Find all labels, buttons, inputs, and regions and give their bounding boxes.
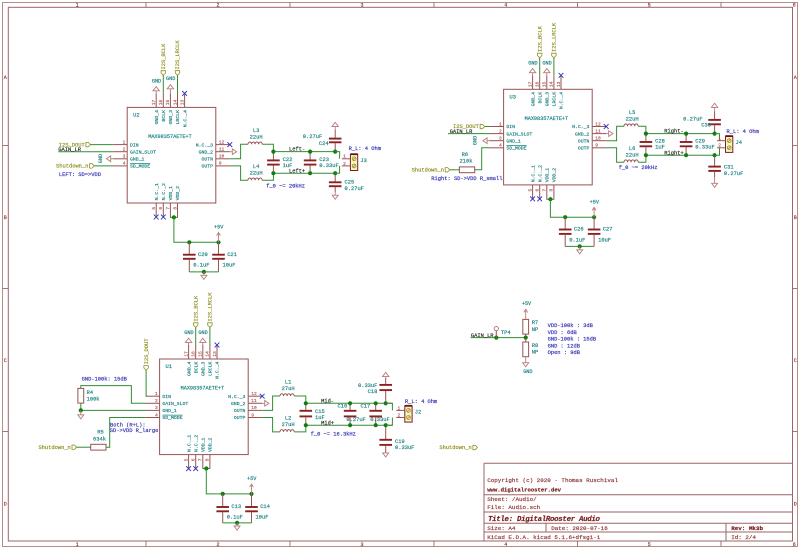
junction VDD pins: [172, 215, 176, 219]
svg-text:5: 5: [151, 207, 157, 210]
hierarchical label I2S_BCLK (mid): [194, 323, 198, 328]
svg-text:0.27uF: 0.27uF: [724, 171, 743, 177]
svg-text:10: 10: [251, 405, 257, 411]
svg-text:GND: GND: [528, 60, 537, 66]
svg-text:SD_MODE: SD_MODE: [506, 146, 526, 152]
svg-text:8: 8: [205, 458, 211, 461]
no-connect U3 pin 13: [559, 73, 564, 78]
svg-text:3: 3: [360, 542, 363, 548]
svg-text:Left-: Left-: [289, 147, 305, 153]
svg-text:N.C._3: N.C._3: [572, 124, 589, 130]
svg-text:6: 6: [535, 189, 541, 192]
svg-text:1: 1: [343, 154, 346, 160]
capacitor C23: [304, 152, 317, 174]
svg-text:R4: R4: [87, 390, 93, 396]
svg-text:1: 1: [398, 405, 401, 411]
wire GAIN_LR to U3 GAIN_SLOT: [448, 133, 490, 135]
wire L2 to Mid+ rail: [294, 425, 306, 432]
svg-text:3: 3: [499, 136, 502, 142]
svg-text:f_0 ~= 16.3kHz: f_0 ~= 16.3kHz: [311, 431, 356, 437]
svg-text:C18: C18: [368, 389, 378, 395]
svg-text:22uH: 22uH: [626, 116, 639, 122]
svg-text:N.C._4: N.C._4: [182, 110, 188, 127]
wire GAIN_LR to U2 GAIN_SLOT: [58, 151, 113, 153]
svg-text:Right-: Right-: [664, 129, 683, 135]
power +5V (U3): [592, 207, 596, 217]
svg-text:6: 6: [793, 3, 796, 9]
wire I2S_BCLK to U3 BCLK: [539, 58, 541, 76]
svg-text:C27: C27: [603, 227, 613, 233]
svg-text:VDD-100k : 3dB: VDD-100k : 3dB: [548, 323, 594, 329]
resistor R8: [523, 342, 529, 357]
svg-text:N.C._3: N.C._3: [196, 142, 213, 148]
svg-text:0.1uF: 0.1uF: [569, 237, 585, 243]
svg-text:15: 15: [198, 351, 204, 357]
op-amp U3 MAX98357AETE+T I2S class-D amplifier: [490, 75, 607, 199]
svg-text:OUTP: OUTP: [234, 415, 246, 421]
svg-text:15: 15: [165, 99, 171, 105]
svg-text:R7: R7: [532, 320, 538, 326]
svg-text:Right+: Right+: [664, 150, 683, 156]
svg-text:DIN: DIN: [162, 394, 171, 400]
svg-text:R8: R8: [532, 343, 538, 349]
svg-text:C24: C24: [319, 141, 329, 147]
junction Right+ at C29: [684, 153, 688, 157]
svg-text:6: 6: [158, 207, 164, 210]
svg-text:C22: C22: [283, 157, 293, 163]
hierarchical label I2S_LRCLK: [175, 71, 179, 76]
svg-text:GND: GND: [472, 136, 478, 145]
svg-text:GND_4: GND_4: [154, 110, 160, 125]
junction Mid- at C18/J2: [384, 401, 388, 405]
wire I2S_LRCLK to U3 LRCLK: [553, 58, 555, 76]
inductor L2: [280, 430, 294, 432]
wire U1 OUTN to L1: [262, 396, 280, 410]
svg-text:13: 13: [212, 351, 218, 357]
wire Left- to J3 pin 1: [335, 152, 339, 159]
junction Left+ at C22: [271, 171, 275, 175]
svg-text:Shutdown_n: Shutdown_n: [56, 164, 88, 170]
svg-text:14: 14: [205, 351, 211, 357]
no-connect U1 pin 12: [260, 394, 265, 399]
svg-text:7: 7: [165, 207, 171, 210]
ground at U2 GND_4: [155, 91, 157, 94]
svg-text:N.C._4: N.C._4: [559, 92, 565, 109]
wire U1 VDD to +5V rail: [206, 469, 251, 494]
svg-text:210k: 210k: [460, 159, 473, 165]
ground at U3 GND_4: [532, 73, 534, 76]
svg-text:C: C: [4, 358, 7, 364]
svg-text:12: 12: [219, 139, 225, 145]
junction Mid+ at C15: [304, 423, 308, 427]
svg-text:Shutdown_n: Shutdown_n: [38, 445, 70, 451]
wire I2S_LRCLK to U1 LRCLK: [209, 327, 211, 345]
svg-text:10uF: 10uF: [598, 237, 611, 243]
svg-text:VDD_2: VDD_2: [208, 437, 214, 452]
svg-text:MAX98357AETE+T: MAX98357AETE+T: [525, 116, 569, 122]
svg-text:1uF: 1uF: [283, 163, 293, 169]
svg-text:GAIN_LR: GAIN_LR: [471, 333, 494, 339]
svg-text:GND : 12dB: GND : 12dB: [548, 343, 581, 349]
svg-text:10: 10: [219, 154, 225, 160]
svg-text:6: 6: [793, 542, 796, 548]
title block: [484, 463, 793, 541]
svg-text:R6: R6: [462, 152, 468, 158]
svg-text:2: 2: [398, 412, 401, 418]
svg-text:13: 13: [179, 99, 185, 105]
svg-text:SD->VDD R_large: SD->VDD R_large: [110, 428, 159, 434]
inductor L1: [280, 394, 294, 396]
hierarchical label I2S_LRCLK (right): [552, 53, 556, 58]
svg-text:GND: GND: [152, 78, 161, 84]
svg-text:GND_3: GND_3: [168, 110, 174, 125]
svg-text:GND_2: GND_2: [575, 131, 590, 137]
no-connect U3 pin 5: [530, 197, 535, 202]
svg-text:GND_2: GND_2: [199, 149, 214, 155]
ground below C20/C21: [201, 275, 207, 279]
svg-text:VDD_1: VDD_1: [168, 186, 174, 201]
svg-text:NP: NP: [532, 327, 538, 333]
svg-text:2: 2: [155, 398, 158, 404]
svg-text:Right: SD->VDD R_small: Right: SD->VDD R_small: [431, 176, 502, 182]
svg-text:1: 1: [76, 3, 79, 9]
svg-text:5: 5: [183, 458, 189, 461]
svg-text:I2S_BCLK: I2S_BCLK: [193, 295, 199, 322]
ground below C31: [712, 183, 718, 187]
no-connect U1 pin 6: [193, 466, 198, 471]
svg-text:Date: 2020-07-16: Date: 2020-07-16: [551, 525, 608, 532]
svg-text:0.27uF: 0.27uF: [346, 417, 365, 423]
wire L5 to Right- rail: [638, 126, 646, 133]
wire I2S_DOUT to U3 DIN: [485, 126, 490, 128]
ground at U3 GND_2: [606, 133, 609, 135]
svg-text:17: 17: [151, 99, 157, 105]
connector J3: [350, 154, 357, 170]
svg-text:0.33uF: 0.33uF: [319, 163, 338, 169]
svg-text:D: D: [794, 501, 797, 507]
svg-text:GND: GND: [523, 369, 532, 375]
global label I2S_DOUT (right): [480, 124, 485, 128]
junction TP4 tap: [494, 336, 498, 340]
svg-text:3: 3: [360, 3, 363, 9]
svg-text:OUTP: OUTP: [201, 164, 213, 170]
svg-text:Title: DigitalRooster Audio: Title: DigitalRooster Audio: [488, 516, 601, 524]
svg-text:LRCLK: LRCLK: [175, 110, 181, 125]
capacitor C19: [379, 425, 392, 453]
svg-text:2: 2: [216, 542, 219, 548]
capacitor C28: [640, 134, 653, 156]
junction Left- at C24/J3: [333, 150, 337, 154]
svg-text:DIN: DIN: [130, 142, 139, 148]
junction +5V rail at C20: [187, 240, 191, 244]
wire U1 OUTP to L2: [262, 418, 280, 432]
inductor L5: [624, 124, 638, 126]
svg-text:GND: GND: [98, 154, 104, 163]
wire Right- to J4 pin 1: [715, 134, 720, 141]
svg-text:LEFT: SD=>VDD: LEFT: SD=>VDD: [59, 172, 101, 178]
wire U2 OUTN to L3: [230, 144, 248, 159]
svg-text:3: 3: [123, 154, 126, 160]
svg-text:GND: GND: [198, 330, 207, 336]
svg-text:U1: U1: [166, 364, 172, 370]
svg-text:Mid-: Mid-: [321, 398, 334, 404]
wire I2S_LRCLK to U2 LRCLK: [177, 75, 179, 93]
svg-text:N.C._1: N.C._1: [154, 183, 160, 200]
capacitor C13: [216, 494, 229, 523]
svg-text:4: 4: [504, 3, 507, 9]
wire R4 bottom to U1 GND_1: [81, 403, 146, 410]
svg-text:OUTN: OUTN: [578, 138, 590, 144]
svg-text:I2S_DOUT: I2S_DOUT: [144, 338, 150, 365]
resistor R7: [523, 319, 529, 334]
capacitor C26: [559, 217, 572, 246]
hierarchical label I2S_BCLK: [161, 71, 165, 76]
svg-text:13: 13: [556, 81, 562, 87]
svg-text:4: 4: [504, 542, 507, 548]
capacitor C15: [300, 403, 313, 425]
wire Right+ to J4 pin 2: [715, 148, 720, 155]
junction Left- at C23: [308, 150, 312, 154]
hierarchical label I2S_BCLK (right): [538, 53, 542, 58]
svg-text:L4: L4: [253, 164, 259, 170]
ground at U2 GND_2: [230, 151, 233, 153]
junction U3 bypass gnd: [578, 244, 582, 248]
no-connect U2 pin 6: [161, 215, 166, 220]
svg-text:GND_1: GND_1: [162, 408, 177, 414]
svg-text:U2: U2: [133, 112, 139, 118]
no-connect U2 pin 12: [227, 142, 232, 147]
svg-text:2: 2: [216, 3, 219, 9]
svg-text:Shutdown_n: Shutdown_n: [412, 168, 444, 174]
connector J4: [726, 136, 733, 152]
wire Mid- to J2 pin 1: [386, 403, 393, 410]
svg-text:C: C: [794, 358, 797, 364]
svg-text:Shutdown_n: Shutdown_n: [439, 445, 471, 451]
junction U3 VDD pins: [548, 197, 552, 201]
wire L6 to Right+ rail: [638, 155, 646, 162]
junction Mid- at C15: [304, 401, 308, 405]
inductor L4: [248, 178, 262, 180]
svg-text:22uH: 22uH: [250, 171, 263, 177]
svg-text:4: 4: [499, 143, 502, 149]
junction Left+ at C25/J3: [333, 171, 337, 175]
svg-text:0.1uF: 0.1uF: [227, 515, 243, 521]
capacitor C14: [245, 494, 258, 523]
svg-text:12: 12: [251, 391, 257, 397]
svg-text:5: 5: [648, 542, 651, 548]
wire U3 OUTN to L5: [606, 126, 624, 141]
svg-text:C20: C20: [198, 252, 208, 258]
junction Mid+ at C16: [348, 423, 352, 427]
svg-text:C25: C25: [345, 180, 355, 186]
wire U1 VDD pins tie: [203, 468, 210, 470]
svg-text:9: 9: [595, 143, 598, 149]
svg-text:I2S_BCLK: I2S_BCLK: [538, 25, 544, 52]
svg-text:C31: C31: [724, 165, 734, 171]
wire R6 to U3 SD_MODE: [475, 148, 490, 170]
svg-text:GND_1: GND_1: [130, 157, 145, 163]
svg-text:17: 17: [183, 351, 189, 357]
svg-text:R_L: 4 Ohm: R_L: 4 Ohm: [727, 129, 759, 135]
svg-text:27uH: 27uH: [282, 386, 295, 392]
svg-text:VDD : 6dB: VDD : 6dB: [548, 330, 578, 336]
svg-text:16: 16: [158, 99, 164, 105]
wire L3 to Left- rail: [262, 144, 273, 151]
junction R4 bottom / gnd: [79, 408, 83, 412]
svg-text:C28: C28: [655, 138, 665, 144]
wire Left- rail: [273, 151, 335, 153]
svg-text:J4: J4: [736, 140, 742, 146]
svg-text:1uF: 1uF: [655, 145, 665, 151]
svg-text:GAIN_SLOT: GAIN_SLOT: [130, 149, 156, 155]
test point TP4: [494, 327, 498, 331]
capacitor C16: [344, 403, 357, 425]
svg-text:4: 4: [155, 412, 158, 418]
svg-text:+5V: +5V: [590, 200, 600, 206]
svg-text:1: 1: [718, 136, 721, 142]
no-connect U3 pin 12: [604, 124, 609, 129]
svg-text:A: A: [794, 75, 797, 81]
svg-text:I2S_BCLK: I2S_BCLK: [161, 43, 167, 70]
svg-text:N.C._2: N.C._2: [161, 183, 167, 200]
svg-text:BCLK: BCLK: [161, 110, 167, 122]
svg-text:14: 14: [549, 81, 555, 87]
wire Mid- rail: [306, 402, 393, 404]
svg-text:Rev: Mk3b: Rev: Mk3b: [731, 525, 763, 532]
wire U3 bypass gnd rail: [565, 245, 594, 247]
junction Right+ at C28: [644, 153, 648, 157]
svg-text:2: 2: [123, 147, 126, 153]
junction +5V rail at C13: [221, 492, 225, 496]
svg-text:C17: C17: [361, 403, 371, 409]
op-amp U2 MAX98357AETE+T I2S class-D amplifier: [113, 93, 230, 217]
wire Left+ to J3 pin 2: [335, 166, 339, 173]
svg-text:Size: A4: Size: A4: [487, 525, 516, 532]
svg-text:N.C._2: N.C._2: [537, 165, 543, 182]
junction U1 VDD pins: [204, 466, 208, 470]
svg-text:11: 11: [251, 398, 257, 404]
capacitor C31: [708, 155, 721, 177]
svg-text:16: 16: [191, 351, 197, 357]
wire Shutdown_n to U2 SD_MODE: [94, 165, 113, 167]
svg-text:0.1uF: 0.1uF: [193, 263, 209, 269]
svg-text:L5: L5: [629, 110, 635, 116]
wire Mid+ to J2 pin 2: [386, 418, 393, 426]
svg-text:SD_MODE: SD_MODE: [162, 415, 182, 421]
svg-text:MAX98357AETE+T: MAX98357AETE+T: [148, 134, 192, 140]
svg-text:17: 17: [527, 81, 533, 87]
svg-text:1: 1: [499, 121, 502, 127]
resistor R5: [91, 444, 106, 450]
junction Right- at C30/J4: [713, 132, 717, 136]
svg-text:22uH: 22uH: [250, 135, 263, 141]
ground at U3 GND_1: [483, 138, 487, 144]
ground below R4: [78, 415, 84, 419]
capacitor C29: [680, 134, 693, 156]
svg-text:2: 2: [718, 143, 721, 149]
svg-text:GND_4: GND_4: [530, 92, 536, 107]
junction bypass gnd: [202, 270, 206, 274]
svg-text:3: 3: [155, 405, 158, 411]
junction Mid+ at C19/J2: [384, 423, 388, 427]
svg-text:f_0 ~= 20kHz: f_0 ~= 20kHz: [619, 165, 658, 171]
op-amp U1 MAX98357AETE+T I2S class-D amplifier: [146, 345, 263, 469]
power +5V (U2): [217, 233, 221, 243]
junction Right+ at C31/J4: [713, 153, 717, 157]
inductor L6: [624, 160, 638, 162]
svg-text:Copyright (c) 2020 - Thomas Ru: Copyright (c) 2020 - Thomas Ruschival: [487, 477, 618, 484]
wire U1 bypass gnd rail: [223, 522, 252, 524]
svg-text:C21: C21: [227, 252, 237, 258]
capacitor C18: [379, 378, 392, 403]
svg-text:12: 12: [595, 121, 601, 127]
ground at U1 GND_3: [202, 342, 204, 345]
svg-text:0.33uF: 0.33uF: [370, 417, 389, 423]
wire VDD to +5V rail: [174, 217, 219, 242]
hierarchical label I2S_LRCLK (mid): [208, 323, 212, 328]
wire bypass gnd rail: [189, 271, 218, 273]
svg-text:0.27uF: 0.27uF: [345, 186, 364, 192]
capacitor C30: [708, 112, 721, 134]
svg-text:R5: R5: [97, 430, 103, 436]
ground at U2 GND_3: [169, 89, 171, 94]
svg-text:U3: U3: [510, 94, 516, 100]
svg-text:MAX98357AETE+T: MAX98357AETE+T: [181, 386, 225, 392]
svg-text:J3: J3: [360, 158, 366, 164]
svg-text:N.C._1: N.C._1: [186, 435, 192, 452]
svg-text:R_L: 4 Ohm: R_L: 4 Ohm: [405, 399, 437, 405]
svg-text:OUTP: OUTP: [578, 146, 590, 152]
svg-text:C14: C14: [260, 504, 270, 510]
wire R4 top to U1 GAIN_SLOT: [81, 386, 146, 404]
svg-text:C13: C13: [231, 504, 241, 510]
svg-text:1: 1: [123, 139, 126, 145]
svg-text:File: Audio.sch: File: Audio.sch: [487, 504, 540, 511]
svg-text:10uF: 10uF: [256, 515, 269, 521]
wire U3 VDD to +5V rail: [550, 199, 594, 217]
wire U2 OUTP to L4: [230, 166, 248, 180]
junction +5V rail at C21: [216, 240, 220, 244]
svg-text:22uH: 22uH: [626, 152, 639, 158]
wire U3 OUTP to L6: [606, 148, 624, 162]
svg-text:KiCad E.D.A. kicad 5.1.6+dfsg: KiCad E.D.A. kicad 5.1.6+dfsg1-1: [487, 534, 601, 541]
svg-text:N.C._4: N.C._4: [215, 361, 221, 378]
no-connect U1 pin 5: [186, 466, 191, 471]
svg-text:N.C._3: N.C._3: [228, 394, 245, 400]
junction Mid+ at C17: [374, 423, 378, 427]
capacitor C24: [329, 130, 342, 152]
wire R5 to U1 SD_MODE: [106, 418, 146, 448]
svg-text:5: 5: [648, 3, 651, 9]
capacitor C27: [588, 217, 601, 246]
svg-text:1: 1: [155, 391, 158, 397]
svg-text:B: B: [4, 215, 7, 221]
capacitor C21: [212, 242, 225, 272]
svg-text:+5V: +5V: [214, 225, 224, 231]
svg-text:DIN: DIN: [506, 124, 515, 130]
wire Left+ rail: [273, 172, 335, 174]
svg-text:GND-100k : 15dB: GND-100k : 15dB: [548, 337, 597, 343]
global label Shutdown_n (right): [445, 168, 450, 172]
junction Left- at C22: [271, 150, 275, 154]
svg-text:A: A: [4, 75, 7, 81]
svg-text:Open : 9dB: Open : 9dB: [548, 350, 581, 356]
svg-text:GND: GND: [166, 76, 175, 82]
svg-text:5: 5: [527, 189, 533, 192]
svg-text:6: 6: [191, 458, 197, 461]
wire Shutdown_n to R5: [77, 446, 91, 448]
svg-text:L3: L3: [253, 128, 259, 134]
